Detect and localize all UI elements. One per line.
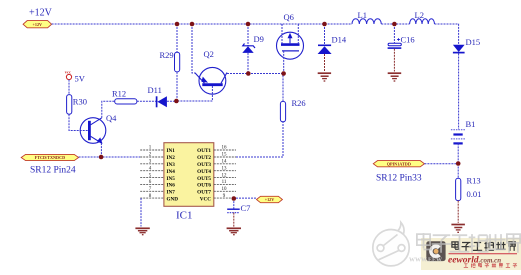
wire rail L2 to D15 [435, 24, 459, 45]
wire rail L1-L2 [381, 23, 409, 25]
svg-text:D11: D11 [148, 85, 162, 95]
battery B1 [451, 119, 476, 164]
ground (IC1 GND) [135, 228, 149, 234]
svg-text:IN1: IN1 [167, 148, 176, 154]
svg-text:14: 14 [222, 160, 228, 165]
node B1-R13-port [456, 161, 461, 166]
resistor R30 [67, 95, 89, 131]
inductor L2 [410, 10, 435, 24]
node rail-C16 [392, 22, 397, 27]
diode D14 [318, 24, 347, 72]
watermark divider line [449, 253, 518, 255]
node D9-Q2c [246, 71, 251, 76]
svg-text:IN3: IN3 [167, 162, 176, 168]
svg-text:OUT3: OUT3 [197, 162, 211, 168]
svg-text:5V: 5V [75, 74, 86, 84]
svg-text:10: 10 [222, 187, 228, 192]
svg-text:6: 6 [149, 180, 152, 185]
svg-text:B1: B1 [466, 119, 476, 129]
svg-text:SR12 Pin24: SR12 Pin24 [30, 166, 76, 176]
wire +12V rail [52, 23, 352, 25]
svg-text:OUT7: OUT7 [197, 190, 211, 196]
IC1 pin numbers left 1-8 [149, 146, 152, 199]
diode D15 [453, 37, 480, 129]
capacitor C16 [388, 24, 415, 72]
node rail-R29 [175, 22, 180, 27]
wire OUT2 to R26 [236, 122, 283, 157]
svg-text:0.01: 0.01 [467, 189, 482, 199]
svg-text:13: 13 [222, 166, 228, 171]
svg-text:OUT1: OUT1 [197, 148, 211, 154]
svg-text:R13: R13 [467, 176, 481, 186]
svg-text:SR12 Pin33: SR12 Pin33 [376, 174, 422, 184]
svg-text:IN6: IN6 [167, 183, 176, 189]
svg-text:9: 9 [223, 194, 226, 199]
svg-text:+12V: +12V [32, 22, 42, 27]
wire GND pin down [140, 198, 142, 226]
port +12V (bottom) [257, 196, 283, 202]
resistor R29 [160, 24, 180, 101]
svg-text:R26: R26 [292, 98, 306, 108]
svg-text:Q4: Q4 [106, 113, 117, 123]
ground (C7) [227, 228, 241, 234]
svg-text:2: 2 [149, 153, 152, 158]
watermark eeworld logo square [426, 241, 445, 261]
svg-text:OUT4: OUT4 [197, 169, 211, 175]
svg-text:IN7: IN7 [167, 190, 176, 196]
svg-text:R30: R30 [73, 97, 87, 107]
wire Q2 base down-left [176, 86, 212, 101]
transistor Q6 mosfet [277, 12, 304, 59]
transistor Q4 [80, 113, 117, 144]
node Q4e-port [99, 155, 104, 160]
port +12V (top left) [23, 21, 51, 28]
power vcc 5V [65, 70, 86, 95]
resistor R12 [112, 89, 156, 105]
svg-text:L2: L2 [415, 10, 424, 20]
inductor L1 [352, 10, 381, 24]
svg-text:4: 4 [149, 166, 152, 171]
port QPIN1ATDD [373, 161, 458, 167]
svg-text:12: 12 [222, 173, 228, 178]
svg-text:OUT6: OUT6 [197, 183, 211, 189]
svg-text:L1: L1 [358, 10, 367, 20]
IC1 pins left [140, 150, 164, 198]
svg-text:C7: C7 [241, 203, 251, 213]
resistor R13 [456, 164, 482, 223]
svg-text:IN2: IN2 [167, 155, 176, 161]
transistor Q2 [195, 49, 227, 94]
svg-text:+12V: +12V [265, 197, 275, 202]
svg-text:15: 15 [222, 153, 228, 158]
wire Q4 collector to R12 [102, 101, 115, 118]
svg-text:R12: R12 [112, 89, 126, 99]
IC U1 box [164, 143, 214, 207]
IC1 pin numbers right [222, 146, 228, 199]
watermark slogan [464, 263, 517, 267]
watermark plate [421, 238, 521, 270]
port FTCD/TXNDCD [21, 154, 140, 160]
svg-text:R29: R29 [160, 50, 174, 60]
svg-text:3: 3 [149, 160, 152, 165]
node rail-D9 [246, 22, 251, 27]
svg-text:8: 8 [149, 194, 152, 199]
svg-text:Q2: Q2 [204, 49, 214, 59]
svg-text:IN5: IN5 [167, 176, 176, 182]
capacitor C7 [227, 198, 250, 227]
resistor R26 [280, 74, 305, 122]
svg-text:C16: C16 [401, 35, 415, 45]
svg-text:WWW.EEW: WWW.EEW [409, 258, 442, 264]
svg-text:OUT5: OUT5 [197, 176, 211, 182]
svg-text:VCC: VCC [200, 196, 211, 202]
svg-text:+12V: +12V [29, 8, 53, 19]
IC1 pin names [167, 148, 212, 202]
ground (C16) [388, 73, 402, 81]
watermark ghost text [417, 233, 520, 253]
watermark circle logo [373, 222, 409, 266]
svg-text:1: 1 [149, 146, 152, 151]
watermark title CJK [452, 241, 515, 250]
svg-text:vcc: vcc [65, 70, 71, 75]
ground (D14) [318, 73, 331, 81]
svg-text:OUT2: OUT2 [197, 155, 211, 161]
wire Q2 emitter drop [192, 24, 195, 73]
node rail-Q2e [190, 22, 195, 27]
diode D9 zener [242, 24, 264, 74]
svg-text:Q6: Q6 [284, 12, 294, 22]
wire Q2 collector to D9 node [227, 73, 284, 75]
svg-text:QPIN1ATDD: QPIN1ATDD [387, 161, 411, 166]
node D11-R29-Q2b [174, 99, 179, 104]
svg-text:FTCD/TXNDCD: FTCD/TXNDCD [35, 155, 65, 160]
node VCC-C7 [232, 196, 237, 201]
wire Q6 gate down to R26 node [283, 51, 285, 74]
wire VCC pin to +12V port [236, 197, 257, 199]
diode D11 [148, 85, 177, 107]
wire Q4 emitter down [100, 143, 102, 157]
svg-text:IN4: IN4 [167, 169, 176, 175]
svg-text:16: 16 [222, 146, 228, 151]
svg-text:7: 7 [149, 187, 152, 192]
node rail-D14 [322, 22, 327, 27]
svg-text:GND: GND [167, 196, 179, 202]
svg-text:D14: D14 [332, 35, 347, 45]
svg-text:D9: D9 [254, 34, 264, 44]
svg-text:IC1: IC1 [176, 210, 193, 222]
svg-text:11: 11 [222, 180, 227, 185]
ground (R13) [451, 225, 465, 233]
node Q6gate-R26 [281, 71, 286, 76]
IC1 pins right [214, 150, 236, 198]
svg-text:D15: D15 [466, 37, 481, 47]
svg-text:5: 5 [149, 173, 152, 178]
